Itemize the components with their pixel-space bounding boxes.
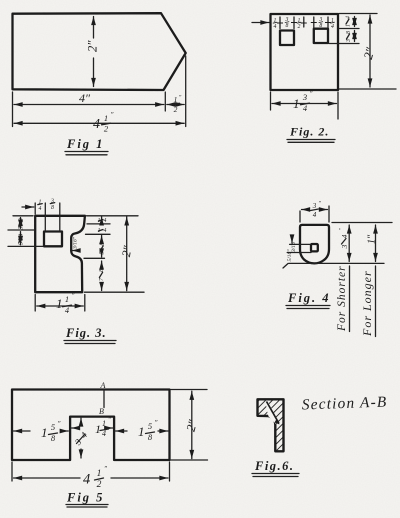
svg-text:4: 4 <box>340 234 349 238</box>
svg-text:3/16″: 3/16″ <box>73 236 79 250</box>
svg-text:Fig.6.: Fig.6. <box>254 459 295 473</box>
svg-text:1: 1 <box>138 424 145 439</box>
svg-text:4: 4 <box>331 23 334 30</box>
svg-text:Fig. 4: Fig. 4 <box>287 291 331 305</box>
svg-text:8: 8 <box>286 23 289 29</box>
svg-text:Fig. 3.: Fig. 3. <box>65 326 107 340</box>
svg-text:2″: 2″ <box>86 40 100 52</box>
svg-text:4: 4 <box>345 16 352 19</box>
svg-text:3: 3 <box>346 39 352 43</box>
svg-text:A: A <box>100 381 106 390</box>
svg-text:Fig 1: Fig 1 <box>66 137 104 151</box>
svg-text:4: 4 <box>83 472 90 488</box>
svg-text:8: 8 <box>346 31 352 34</box>
svg-text:4: 4 <box>274 23 277 30</box>
svg-text:3: 3 <box>302 92 307 102</box>
svg-text:″: ″ <box>111 111 114 119</box>
svg-text:″: ″ <box>310 90 313 98</box>
svg-text:For Shorter: For Shorter <box>336 265 348 332</box>
svg-text:8: 8 <box>319 23 322 29</box>
svg-text:2: 2 <box>174 105 178 114</box>
svg-text:1: 1 <box>65 294 69 304</box>
svg-text:4″: 4″ <box>79 91 91 105</box>
svg-text:Section A-B: Section A-B <box>302 394 388 414</box>
svg-text:For Longer: For Longer <box>360 270 374 337</box>
svg-text:B: B <box>99 407 104 416</box>
svg-text:4: 4 <box>39 205 42 212</box>
svg-text:″: ″ <box>104 465 107 473</box>
svg-text:″: ″ <box>72 292 75 300</box>
svg-text:Fig. 2.: Fig. 2. <box>289 125 329 139</box>
svg-text:3: 3 <box>340 244 349 249</box>
svg-text:2: 2 <box>97 480 102 490</box>
svg-text:″: ″ <box>108 416 111 424</box>
svg-text:4: 4 <box>104 227 107 234</box>
svg-text:4: 4 <box>93 117 100 132</box>
svg-text:1: 1 <box>174 95 178 104</box>
svg-text:5/16″: 5/16″ <box>287 249 293 262</box>
svg-text:5: 5 <box>148 421 152 431</box>
svg-text:8: 8 <box>51 205 54 211</box>
svg-text:1: 1 <box>293 96 300 111</box>
svg-text:″: ″ <box>58 420 61 428</box>
svg-text:4: 4 <box>104 217 107 224</box>
svg-text:1: 1 <box>104 113 108 123</box>
svg-text:1″: 1″ <box>367 234 378 244</box>
svg-text:″: ″ <box>155 419 158 427</box>
svg-text:2: 2 <box>298 24 301 30</box>
svg-text:Fig 5: Fig 5 <box>66 491 104 505</box>
svg-text:1: 1 <box>95 422 101 436</box>
svg-text:5: 5 <box>99 251 106 254</box>
svg-text:3: 3 <box>312 202 317 210</box>
svg-text:1: 1 <box>102 419 106 428</box>
svg-text:4: 4 <box>313 211 317 219</box>
svg-text:5: 5 <box>51 422 55 432</box>
svg-text:1: 1 <box>56 296 63 311</box>
svg-text:1: 1 <box>41 425 48 440</box>
svg-text:1: 1 <box>97 469 102 479</box>
